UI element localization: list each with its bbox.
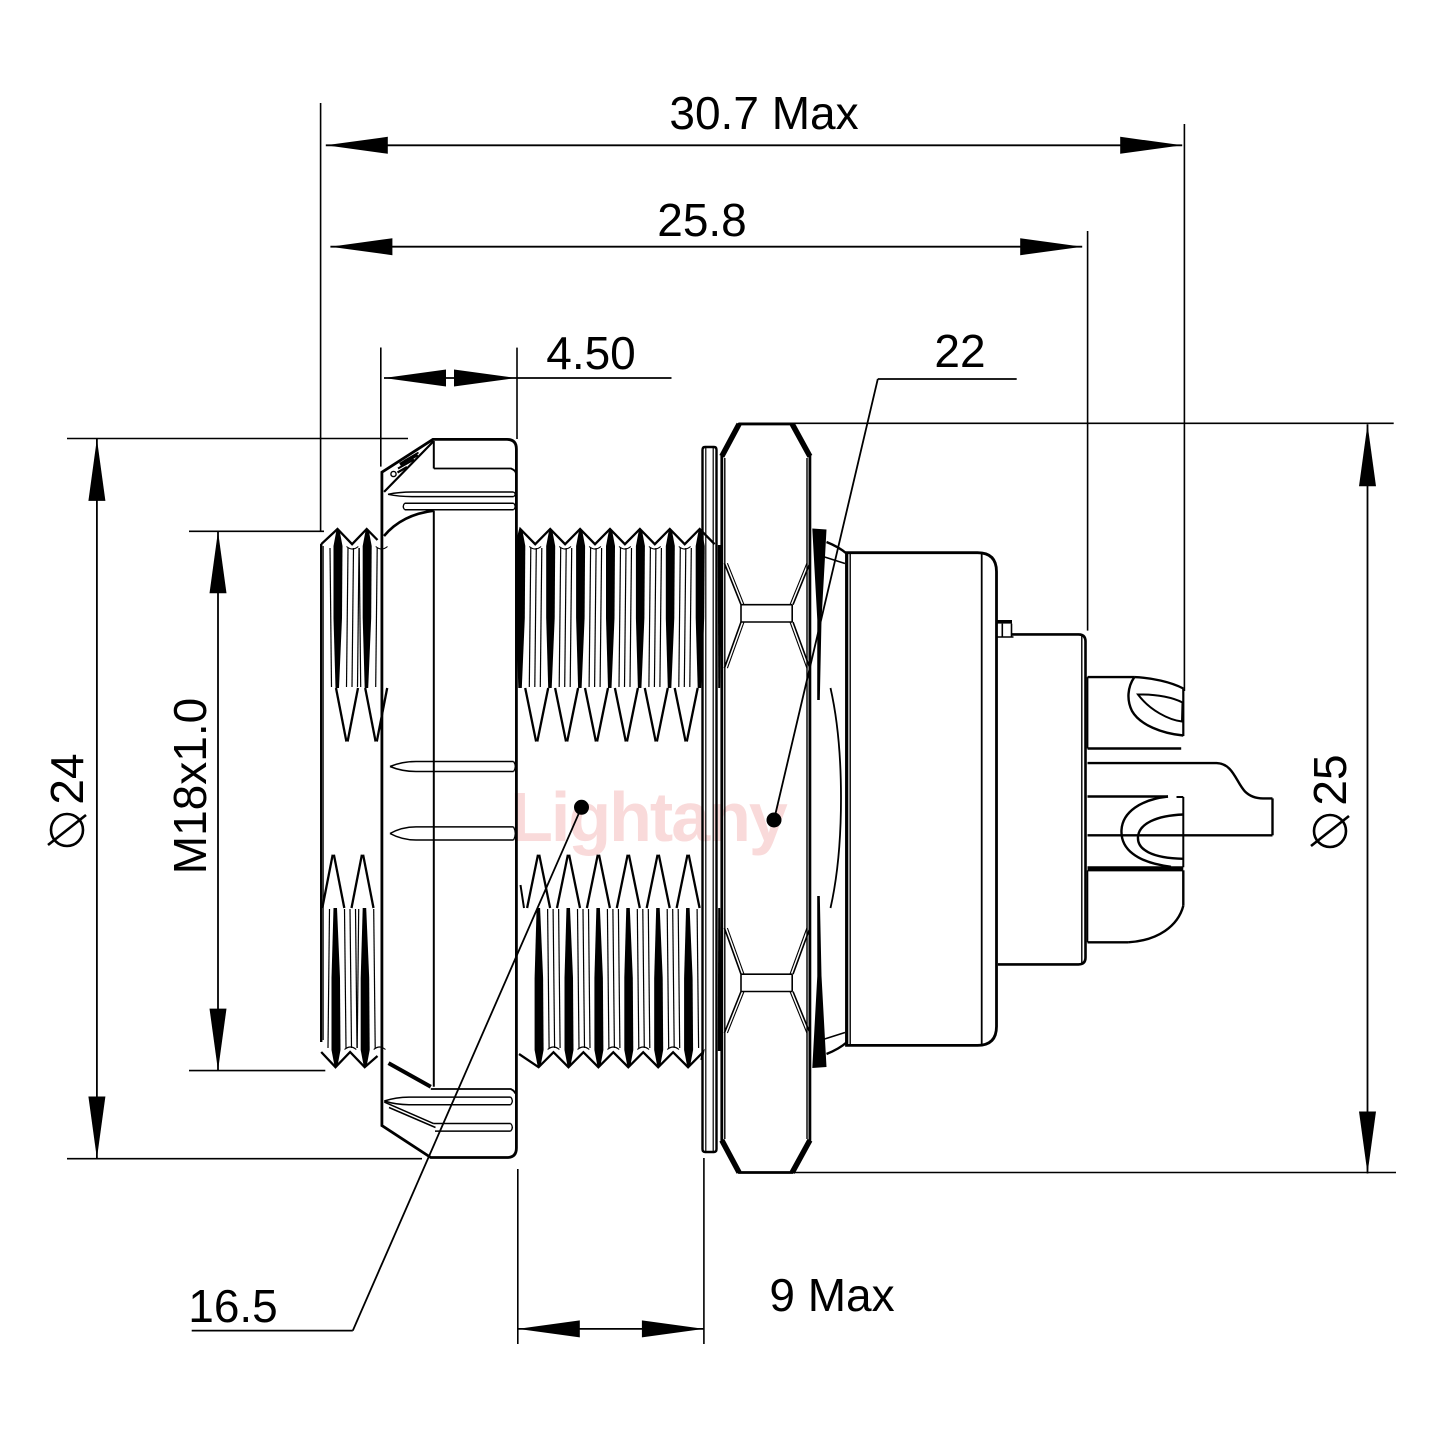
- svg-text:4.50: 4.50: [546, 327, 636, 379]
- svg-text:25: 25: [1304, 754, 1356, 805]
- svg-text:9 Max: 9 Max: [769, 1269, 894, 1321]
- svg-text:30.7 Max: 30.7 Max: [669, 87, 858, 139]
- svg-text:16.5: 16.5: [188, 1280, 278, 1332]
- svg-text:24: 24: [41, 753, 93, 804]
- svg-text:M18x1.0: M18x1.0: [164, 698, 216, 874]
- svg-text:22: 22: [934, 325, 985, 377]
- svg-text:25.8: 25.8: [657, 194, 747, 246]
- svg-text:Lightany: Lightany: [510, 778, 788, 856]
